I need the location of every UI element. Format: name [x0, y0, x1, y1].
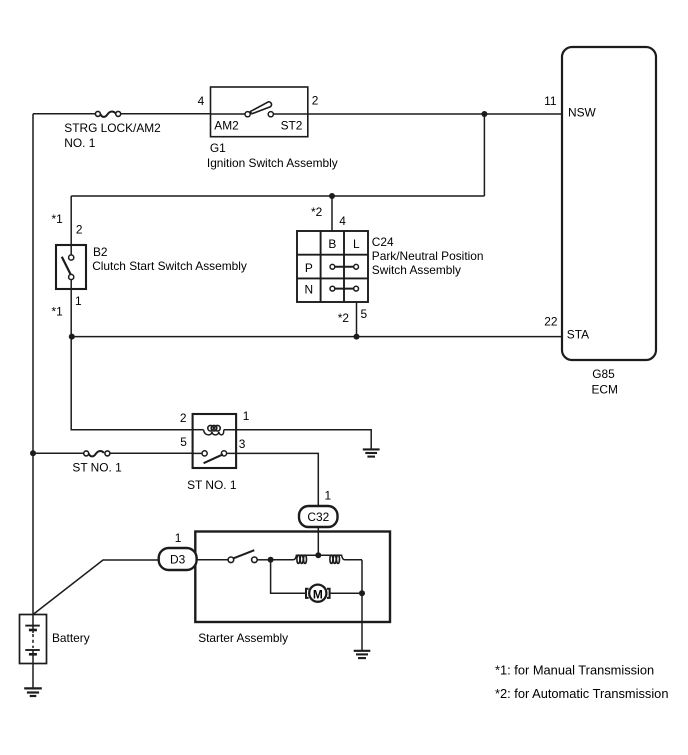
svg-text:*1: *1 [52, 305, 64, 319]
wire: clutch branch continues down to relay coil [71, 337, 192, 430]
starter switch contacts [228, 557, 234, 563]
fuse STRG LOCK/AM2 NO.1 [95, 111, 210, 116]
svg-text:C24: C24 [372, 235, 394, 249]
C24 N-row contact bar [330, 286, 359, 291]
wire into clutch switch top [70, 245, 72, 255]
wire: relay coil right to ground [224, 430, 371, 449]
wire: top horizontal from bus to STRG fuse [33, 113, 95, 115]
svg-text:Ignition Switch Assembly: Ignition Switch Assembly [207, 156, 338, 170]
svg-text:ECM: ECM [592, 382, 618, 396]
starter switch blade [234, 550, 255, 558]
ignition switch blade [250, 102, 271, 114]
wire: right side down to motor junction [361, 560, 363, 593]
svg-text:P: P [305, 261, 313, 275]
svg-text:G85: G85 [592, 367, 615, 381]
wire: STA horizontal to ECM pin 22 [72, 336, 562, 338]
ST relay box [193, 414, 237, 468]
svg-text:Park/Neutral Position: Park/Neutral Position [372, 249, 484, 263]
svg-text:3: 3 [239, 437, 246, 451]
svg-text:2: 2 [180, 411, 187, 425]
ignition switch contacts [245, 112, 250, 117]
svg-text:G1: G1 [210, 141, 226, 155]
wire inside relay to switch contact [193, 452, 202, 454]
fuse ST NO.1 [33, 451, 193, 456]
svg-text:1: 1 [243, 409, 250, 423]
svg-text:ST2: ST2 [281, 119, 303, 133]
junction node C24 top branch [329, 193, 335, 199]
wire: C32 to starter coil junction [317, 527, 319, 555]
svg-text:5: 5 [361, 307, 368, 321]
svg-text:C32: C32 [307, 510, 329, 524]
battery cells [25, 615, 40, 688]
svg-text:2: 2 [76, 222, 83, 236]
ignition switch box G1 [211, 87, 308, 137]
wire: down from branch into C24 [331, 196, 333, 231]
svg-text:1: 1 [75, 294, 82, 308]
clutch start switch box B2 [56, 245, 86, 289]
svg-text:*2: for Automatic Transmission: *2: for Automatic Transmission [495, 686, 668, 701]
wire: clutch branch vertical upper [70, 196, 72, 245]
wire: C24 bottom pin 5 down to STA wire [356, 302, 358, 337]
junction node bus/ST fuse [30, 450, 36, 456]
starter solenoid coils [271, 555, 362, 563]
svg-text:1: 1 [325, 489, 332, 503]
battery box [20, 615, 47, 664]
svg-text:B: B [328, 237, 336, 251]
junction node coil/C32 [315, 552, 321, 558]
wire: switch to junction [257, 559, 270, 561]
svg-text:ST NO. 1: ST NO. 1 [72, 460, 122, 474]
svg-text:B2: B2 [93, 245, 108, 259]
wire: vertical drop from NSW wire to MT/AT branch wire [483, 114, 485, 196]
svg-text:22: 22 [544, 315, 558, 329]
relay switch contacts [202, 451, 207, 456]
junction node C24/STA [354, 334, 360, 340]
relay coil [193, 425, 224, 434]
svg-text:11: 11 [544, 94, 557, 108]
clutch switch blade [62, 257, 71, 275]
ECM box G85 [562, 47, 656, 360]
svg-text:Battery: Battery [52, 631, 90, 645]
svg-text:4: 4 [198, 94, 205, 108]
svg-text:5: 5 [180, 435, 187, 449]
svg-text:STRG LOCK/AM2: STRG LOCK/AM2 [64, 121, 161, 135]
wire: left bus vertical from top corner to battery [32, 114, 34, 615]
svg-text:STA: STA [567, 328, 589, 342]
svg-text:*1: for Manual Transmission: *1: for Manual Transmission [495, 662, 654, 677]
svg-text:Starter Assembly: Starter Assembly [198, 631, 288, 645]
svg-text:ST NO. 1: ST NO. 1 [187, 478, 237, 492]
ground (relay coil) [363, 449, 380, 456]
wire: D3 to starter switch [197, 559, 228, 561]
relay switch blade [204, 454, 223, 463]
wire: junction down to motor row [271, 560, 306, 593]
svg-text:N: N [305, 282, 314, 296]
svg-text:NO. 1: NO. 1 [64, 136, 95, 150]
svg-text:Switch Assembly: Switch Assembly [372, 263, 461, 277]
starter assembly box [195, 532, 390, 623]
starter motor M [306, 585, 362, 602]
connector C32 oval [299, 506, 338, 527]
wire: down through box to starter ground [361, 593, 363, 650]
wire: relay pin3 to C32 [227, 453, 319, 506]
junction node starter switch [268, 557, 274, 563]
svg-text:M: M [313, 588, 323, 602]
wire out of clutch switch bottom down to STA junction [70, 280, 72, 337]
svg-text:1: 1 [175, 531, 182, 545]
junction node motor/ground [359, 590, 365, 596]
junction node above C24 branch on NSW wire [481, 111, 487, 117]
svg-text:*1: *1 [52, 212, 64, 226]
svg-text:L: L [353, 237, 360, 251]
svg-text:4: 4 [339, 214, 346, 228]
wire: diagonal from battery to D3 [33, 560, 159, 615]
svg-text:2: 2 [312, 93, 319, 107]
wire: from ST2 contact to ECM pin 11 [274, 113, 562, 115]
clutch switch contacts [69, 255, 74, 260]
svg-text:*2: *2 [311, 205, 323, 219]
junction node clutch/STA [69, 334, 75, 340]
C24 P-row contact bar [330, 264, 359, 269]
svg-text:*2: *2 [338, 311, 350, 325]
ground (battery) [24, 688, 42, 696]
wire: branch horizontal to clutch switch [71, 195, 484, 197]
park/neutral switch C24 grid box [297, 231, 368, 302]
svg-text:Clutch Start Switch Assembly: Clutch Start Switch Assembly [92, 259, 247, 273]
svg-text:D3: D3 [170, 553, 186, 567]
ground (starter) [354, 651, 371, 658]
svg-text:NSW: NSW [568, 106, 597, 120]
connector D3 oval [159, 548, 197, 570]
svg-text:AM2: AM2 [214, 119, 239, 133]
wire: inside ignition box left [211, 113, 245, 115]
